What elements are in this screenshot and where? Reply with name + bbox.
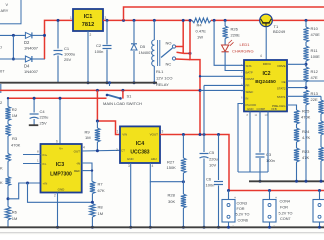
resistor R4 current sense	[192, 18, 211, 23]
svg-text:BD249: BD249	[273, 29, 286, 34]
label R6 1M	[12, 210, 18, 221]
wire IC2 CE line	[287, 80, 324, 82]
wire ADJ chain down	[149, 182, 151, 228]
svg-text:IC1: IC1	[84, 14, 93, 20]
node vout c6	[217, 133, 220, 136]
wire 12V rail from IC1 out (red)	[103, 19, 192, 21]
wire NC contact (red)	[176, 58, 191, 61]
node r12 r13	[305, 86, 308, 89]
page fold line	[0, 232, 324, 234]
label MAIN LOAD SWITCH	[103, 101, 142, 106]
label C3 100n	[266, 152, 275, 163]
svg-text:R28: R28	[168, 193, 176, 198]
label IC2 BQ24450	[255, 71, 276, 85]
svg-text:R12: R12	[311, 69, 319, 74]
wire IC3 V+ from rail	[59, 98, 61, 144]
wire rectifier output (red)	[45, 20, 74, 59]
svg-text:V+: V+	[59, 147, 63, 151]
wire red riser to top rail	[124, 7, 324, 20]
resistor R15 partial	[318, 121, 323, 147]
svg-text:R24: R24	[302, 129, 310, 134]
wire LED1 to IC2	[225, 52, 244, 71]
svg-text:IN-: IN-	[43, 162, 47, 166]
capacitor C3 on COMP	[256, 111, 265, 172]
wire rail at T1 (red)	[272, 19, 324, 21]
wire IC4 ADJ	[150, 163, 183, 182]
node rail1 end	[199, 89, 202, 92]
resistor R14 partial	[318, 100, 323, 121]
wire SNS sense line	[214, 20, 244, 65]
svg-text:3: 3	[128, 164, 130, 168]
svg-text:C2: C2	[96, 43, 102, 48]
svg-text:5.2V TO: 5.2V TO	[279, 211, 293, 215]
svg-text:4: 4	[260, 54, 262, 58]
node ADJ bus	[149, 226, 152, 229]
svg-text:1M: 1M	[12, 113, 18, 118]
label C2 100n	[95, 43, 104, 54]
label D4 1N4007	[24, 64, 39, 75]
label R12 47E	[311, 69, 319, 80]
svg-text:ARY: ARY	[1, 9, 9, 13]
node D5 gnd	[133, 81, 136, 84]
node bridge out	[43, 34, 46, 37]
pin 1 IC1	[70, 16, 72, 20]
node vout r27	[182, 133, 185, 136]
svg-text:FOR: FOR	[280, 206, 288, 210]
diode D2	[25, 32, 45, 38]
svg-text:R3: R3	[12, 136, 18, 141]
node out rail con3	[227, 189, 230, 192]
node rail-corner	[122, 19, 125, 22]
node rail1 s1	[121, 89, 124, 92]
svg-text:D2: D2	[24, 40, 30, 45]
IC2 bottom pin numbers	[247, 113, 268, 117]
svg-text:K: K	[0, 166, 3, 171]
wire cut stub at left edge	[0, 84, 2, 93]
label fragment K2	[0, 180, 3, 185]
wire NO contact to rail (red)	[176, 20, 184, 53]
resistor R24	[294, 128, 299, 148]
svg-text:CON7: CON7	[280, 217, 291, 221]
relay RL1 coil	[152, 20, 160, 82]
label C1	[64, 46, 75, 62]
label RL1 12V 1CO RELAY	[156, 69, 172, 87]
svg-text:1N4007: 1N4007	[139, 50, 154, 55]
label R24 4.7K	[302, 129, 311, 140]
svg-text:R10: R10	[311, 26, 319, 31]
svg-text:K: K	[0, 180, 3, 185]
label R8 1M	[98, 205, 104, 217]
svg-text:R13: R13	[311, 91, 319, 96]
label R9 1M	[85, 130, 91, 141]
svg-text:100E: 100E	[311, 54, 321, 59]
label R13 22E	[311, 91, 319, 102]
svg-text:25V: 25V	[64, 57, 71, 62]
wire IC2 DRVE tap	[287, 63, 306, 65]
svg-text:2: 2	[116, 148, 118, 152]
svg-text:C3: C3	[266, 152, 272, 157]
ground bus (right)	[249, 180, 324, 182]
node IC4 gnd	[129, 226, 132, 229]
svg-text:1000u: 1000u	[64, 52, 75, 57]
node IC3 out R9	[96, 149, 99, 152]
svg-text:47K: 47K	[302, 155, 309, 160]
wire left chain top	[7, 98, 9, 106]
svg-text:25V: 25V	[40, 120, 47, 125]
resistor R3	[5, 124, 10, 154]
node IC3 gnd	[56, 226, 59, 229]
wire IC2 STAT1 line	[287, 95, 321, 97]
svg-text:1: 1	[117, 130, 119, 134]
IC2 bottom pin labels	[247, 107, 277, 111]
svg-text:R26: R26	[231, 27, 239, 32]
wire IC3 OUT to IC4 CT	[82, 146, 120, 152]
label R27 150K	[167, 160, 177, 171]
svg-text:COMP: COMP	[257, 107, 266, 111]
node R9 tap	[96, 120, 99, 123]
label C5 220u 10V	[209, 150, 218, 168]
connector CON4	[263, 191, 293, 228]
wire T1 base to IC2	[265, 27, 267, 60]
wire gnd collect	[238, 171, 268, 173]
svg-text:CE: CE	[281, 80, 285, 84]
svg-text:LMP7300: LMP7300	[50, 172, 72, 178]
wire IC2 VFB down	[267, 111, 269, 172]
diode D5 flyback	[131, 20, 137, 82]
label D2 1N4007	[24, 40, 39, 51]
node C6 gnd	[217, 226, 220, 229]
svg-text:220u: 220u	[209, 156, 218, 161]
svg-text:150K: 150K	[167, 165, 177, 170]
regulator IC1 7812 box	[73, 9, 103, 31]
label C6 100n	[206, 177, 215, 188]
svg-text:IC3: IC3	[56, 162, 64, 168]
svg-text:R7: R7	[98, 182, 104, 187]
node con4 gnd	[268, 226, 271, 229]
svg-text:C5: C5	[209, 150, 215, 155]
IC2 pin numbers	[241, 63, 243, 106]
resistor R13	[303, 90, 308, 181]
IC3 pin labels	[43, 147, 81, 192]
label fragment D1	[0, 45, 3, 50]
svg-text:3: 3	[162, 130, 164, 134]
transformer secondary label box (cut off at left edge)	[0, 0, 21, 24]
node out rail con4	[268, 189, 271, 192]
node REF join	[91, 169, 93, 171]
label NO	[166, 41, 172, 46]
svg-text:30K: 30K	[168, 199, 175, 204]
svg-text:100n: 100n	[95, 49, 104, 54]
wire +IN to R7 junction	[28, 183, 93, 202]
pin nums IC4	[116, 130, 164, 169]
node C4 top	[33, 97, 36, 100]
node AC1	[12, 34, 15, 37]
node out rail con5	[318, 189, 321, 192]
resistor R28	[181, 194, 186, 227]
svg-text:R2: R2	[12, 107, 18, 112]
svg-text:10V: 10V	[209, 163, 216, 168]
svg-text:+IN: +IN	[43, 182, 48, 186]
wire IC2 GND down	[249, 111, 251, 172]
resistor R25	[294, 110, 299, 128]
node right bus c3	[259, 180, 262, 183]
capacitor C6	[214, 135, 223, 228]
svg-text:470K: 470K	[301, 115, 311, 120]
svg-text:BQ24450: BQ24450	[255, 79, 276, 85]
label R23 47K	[302, 149, 310, 160]
node ADJ R27 join	[182, 180, 185, 183]
svg-text:C6: C6	[206, 177, 212, 182]
wire IC4 GND	[130, 163, 132, 227]
capacitor C5	[200, 135, 209, 228]
svg-text:4.7K: 4.7K	[302, 135, 311, 140]
relay armature	[161, 48, 173, 58]
svg-text:VOUT: VOUT	[150, 133, 159, 137]
node NO rail	[182, 19, 185, 22]
resistor R16 partial	[318, 147, 323, 181]
node rail-D5	[133, 19, 136, 22]
svg-text:STAT1: STAT1	[277, 95, 286, 99]
pin 6 IC3	[56, 140, 58, 144]
IC2 left pin labels	[246, 64, 257, 107]
label C4 220u 25V	[40, 109, 49, 126]
label R10 470E	[311, 26, 321, 37]
node coil gnd	[153, 81, 156, 84]
node +IN branch	[26, 182, 29, 185]
resistor R27	[181, 135, 186, 195]
wire supply rail upper (red)	[0, 89, 200, 91]
label R2 1M	[12, 107, 18, 118]
node rail-coil	[153, 19, 156, 22]
resistor R8	[90, 204, 95, 228]
svg-text:GND: GND	[127, 157, 134, 161]
transistor T1 BD249	[260, 14, 273, 27]
svg-text:DRVM: DRVM	[246, 77, 255, 81]
wire stub b drop	[203, 85, 205, 134]
wire tap to IC3 +IN	[8, 183, 41, 199]
svg-text:UCC383: UCC383	[130, 150, 149, 156]
svg-text:470K: 470K	[11, 143, 21, 148]
node r13 bus	[305, 180, 308, 183]
wire IC2 STAT2 tap	[287, 87, 306, 89]
label LED1 CHARGING	[232, 42, 254, 54]
wire IC2 PGOOD down	[238, 104, 244, 173]
label T1 BD249	[273, 24, 286, 34]
svg-text:100n: 100n	[266, 158, 275, 163]
svg-text:CON6: CON6	[238, 218, 249, 222]
label R26 220E	[231, 27, 241, 38]
resistor R12	[303, 67, 308, 88]
svg-text:1M: 1M	[85, 135, 91, 140]
node relay common	[189, 52, 192, 55]
svg-text:RL1: RL1	[156, 69, 164, 74]
svg-text:2: 2	[90, 33, 92, 37]
svg-text:REF: REF	[74, 169, 80, 173]
svg-text:MAIN LOAD SWITCH: MAIN LOAD SWITCH	[103, 101, 142, 106]
svg-text:GND: GND	[58, 188, 66, 192]
svg-text:D5: D5	[140, 44, 146, 49]
wire IC3 GND	[54, 193, 58, 228]
charger IC2 BQ24450	[244, 60, 287, 111]
wire IC2 pin stub b	[204, 84, 244, 86]
wire AC vertical link	[12, 35, 14, 59]
wire S1 riser (red)	[122, 90, 124, 98]
svg-text:R11: R11	[311, 48, 319, 53]
svg-text:67K: 67K	[98, 188, 105, 193]
svg-text:LED1: LED1	[240, 42, 251, 47]
resistor R23	[294, 148, 299, 181]
label R25 470K	[301, 109, 311, 120]
resistor R7	[90, 182, 95, 203]
svg-text:R27: R27	[167, 160, 175, 165]
svg-text:R6: R6	[12, 210, 18, 215]
svg-text:S1: S1	[127, 93, 133, 98]
node vout c5	[203, 133, 206, 136]
resistor R10	[303, 20, 308, 46]
label fragment K1	[0, 166, 3, 171]
svg-text:47E: 47E	[311, 75, 318, 80]
resistor R6b	[5, 177, 10, 207]
switch S1 blade	[106, 94, 122, 100]
node r11 r12	[305, 63, 308, 66]
capacitor C4	[29, 98, 39, 125]
svg-text:BATP: BATP	[246, 71, 253, 75]
node R8 gnd	[91, 226, 94, 229]
node C5 gnd	[203, 226, 206, 229]
svg-text:SNS: SNS	[246, 64, 252, 68]
wire IC3 left pin a	[23, 150, 41, 155]
svg-text:NC: NC	[166, 62, 172, 67]
LED LED1 charging	[222, 40, 234, 52]
pin 3 IC1	[90, 16, 107, 37]
svg-text:0.47E: 0.47E	[196, 28, 207, 33]
label IC3 LMP7300	[50, 162, 72, 178]
svg-text:R25: R25	[302, 109, 310, 114]
svg-text:STAT2: STAT2	[277, 87, 286, 91]
node C2 gnd	[106, 81, 109, 84]
node chain rail2	[7, 97, 9, 99]
connector CON3	[222, 191, 250, 228]
resistor R2	[5, 107, 10, 124]
svg-text:R23: R23	[302, 149, 310, 154]
svg-text:NO: NO	[166, 41, 172, 46]
node bus stub	[108, 81, 111, 86]
label R4 0.47E 1W	[196, 22, 207, 39]
svg-text:220E: 220E	[231, 33, 241, 38]
svg-text:D4: D4	[24, 64, 30, 69]
svg-text:R8: R8	[98, 205, 104, 210]
svg-text:CT: CT	[121, 149, 125, 153]
svg-text:7812: 7812	[82, 22, 94, 28]
svg-text:12V 1CO: 12V 1CO	[156, 76, 172, 81]
svg-text:1M: 1M	[12, 216, 18, 221]
wire AC line 1 from left edge	[0, 34, 25, 36]
svg-text:470E: 470E	[311, 32, 321, 37]
svg-text:C4: C4	[40, 109, 46, 114]
svg-text:ADJ: ADJ	[151, 157, 157, 161]
wire to right bus	[259, 172, 261, 181]
node rail-C2	[106, 19, 109, 22]
svg-text:PR: PR	[246, 84, 250, 88]
IC4 pin labels	[121, 133, 158, 162]
relay NC contact	[172, 57, 175, 60]
label fragment D3	[0, 69, 5, 74]
ground bus (middle)	[0, 82, 157, 84]
svg-text:IC4: IC4	[136, 141, 144, 147]
wire IC3 -IN to R7	[82, 163, 92, 182]
label R7 67K	[98, 182, 105, 193]
svg-text:CON4: CON4	[280, 200, 291, 204]
svg-text:DRVC: DRVC	[263, 62, 271, 66]
node chainB bus	[320, 180, 323, 183]
svg-text:-IN: -IN	[76, 162, 80, 166]
node R7 R8	[91, 201, 94, 204]
svg-text:RELAY: RELAY	[156, 82, 169, 87]
capacitor C2	[103, 20, 112, 82]
wire battery rail lower (red)	[8, 97, 107, 99]
wire 5V output rail (red)	[229, 190, 324, 192]
label D5 1N4007	[139, 44, 154, 55]
svg-text:IC2: IC2	[262, 71, 270, 77]
node IC1 gnd	[87, 81, 90, 84]
svg-text:R9: R9	[85, 130, 91, 135]
node con3 gnd	[227, 226, 230, 229]
IC2 right pin labels	[263, 62, 286, 108]
svg-text:OUT: OUT	[74, 150, 81, 154]
regulator IC4 UCC383	[120, 126, 160, 163]
label R11 100E	[311, 48, 321, 59]
connector CON5	[313, 191, 324, 228]
svg-text:VIN: VIN	[122, 133, 127, 137]
pin 4 IC2 top	[260, 54, 262, 58]
svg-text:5.2V TO: 5.2V TO	[236, 213, 250, 217]
wire relay common (red)	[177, 52, 191, 53]
svg-text:220u: 220u	[40, 115, 49, 120]
node R28 gnd	[182, 226, 185, 229]
node IC3 V+ rail	[59, 97, 62, 100]
label R28 30K	[168, 193, 176, 204]
wire red feed to IC4 VIN	[97, 90, 120, 134]
label NC	[166, 62, 172, 67]
label S1	[127, 93, 133, 98]
node rail sns	[213, 19, 216, 22]
wire main red vertical	[190, 20, 200, 134]
svg-text:100n: 100n	[206, 183, 215, 188]
node left chain tap	[7, 197, 10, 200]
node main vert top	[189, 19, 192, 22]
node rail r10	[305, 19, 308, 22]
svg-text:CON3: CON3	[237, 202, 248, 206]
node rail r26	[224, 19, 227, 22]
svg-text:1W: 1W	[197, 34, 203, 39]
wire rail after R4 (red)	[211, 19, 260, 21]
wire IC1 ground pin	[87, 31, 89, 83]
svg-text:SREF: SREF	[246, 90, 254, 94]
node AC2	[12, 58, 15, 61]
svg-text:22E: 22E	[311, 97, 318, 102]
node con5 gnd	[318, 226, 321, 229]
resistor R11	[303, 46, 308, 67]
node stub a	[199, 75, 201, 77]
resistor R5	[5, 154, 10, 177]
svg-text:4: 4	[83, 146, 85, 150]
svg-text:4: 4	[152, 164, 154, 168]
node C1 top	[57, 19, 60, 22]
resistor R26	[223, 20, 228, 44]
svg-text:07: 07	[0, 69, 5, 74]
wire IC3 REF stub	[82, 170, 92, 172]
wire IC2 pin stub a	[200, 75, 244, 77]
